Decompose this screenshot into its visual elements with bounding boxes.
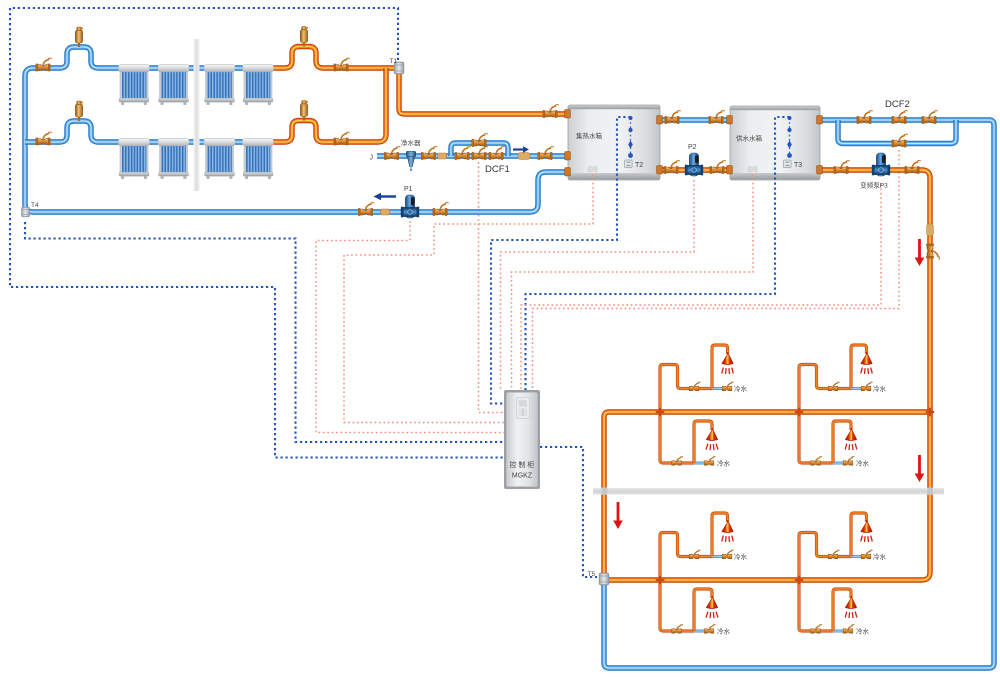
valve DCF2 bypass (892, 134, 908, 147)
valve DCF1 bypass (472, 134, 488, 147)
junction line1 riser (926, 408, 934, 416)
shower unit A2 (799, 345, 887, 412)
pump P1 (401, 195, 419, 218)
wire blue J purifier line (377, 155, 568, 157)
valve J line 1 (384, 147, 400, 160)
port fitting tank2 P3 out (817, 166, 823, 174)
valve DCF1 c (489, 147, 505, 160)
texts inserted here (31, 58, 910, 578)
valve top link b (709, 111, 725, 124)
wire P1 control (316, 221, 504, 433)
purifier 净水器 (406, 151, 415, 171)
svg-text:MGKZ: MGKZ (512, 473, 533, 480)
svg-text:供水水箱: 供水水箱 (736, 134, 763, 143)
pump P2 (685, 153, 703, 176)
valve collector row1 left (36, 58, 52, 71)
valve DCF2 a (857, 111, 873, 124)
capsule P1 line (381, 209, 390, 215)
svg-text:T1: T1 (390, 58, 398, 65)
port fitting tank1 out to P1 (565, 168, 571, 176)
shower unit D1 (660, 580, 731, 636)
flow arrow right (513, 146, 529, 153)
pump P3 变频泵 (872, 153, 890, 176)
wire DCF2 control (533, 150, 900, 390)
valve DCF2 c (922, 111, 938, 124)
wire T3 sensor cable (526, 117, 790, 390)
collector panel row2-3 (204, 139, 235, 179)
junction line1 left (656, 408, 664, 416)
valve P3 line right (905, 161, 921, 174)
shower unit B1 (660, 412, 731, 468)
collector panel row2-2 (158, 139, 189, 179)
wire P3 control (521, 184, 881, 390)
port fitting tank1 bottom link (657, 166, 663, 174)
shower unit C2 (799, 513, 887, 580)
collector panel row1-1 (119, 65, 150, 105)
valve P1 line right (433, 203, 449, 216)
valve collector row2 left (36, 132, 52, 145)
junction line2 right (795, 576, 803, 584)
components inserted here (22, 27, 940, 585)
shower unit B2 (799, 412, 870, 468)
collector panel row2-4 (243, 139, 274, 179)
valve DCF2 b (892, 111, 908, 124)
valve DCF1 b (472, 147, 488, 160)
collector panel row2-1 (119, 139, 150, 179)
wire orange row1 collector out > T1 > down > into tank1 (255, 47, 568, 115)
sensor fitting T4 (22, 207, 30, 217)
wire blue link tank1-tank2 top (660, 119, 730, 121)
junction line2 left (656, 576, 664, 584)
sensor fitting T5 (599, 573, 609, 585)
shower unit C1 (660, 513, 748, 580)
valve collector row2 right (334, 132, 350, 145)
svg-text:集热水箱: 集热水箱 (576, 131, 603, 140)
floor slab bar (593, 488, 944, 494)
wire tank1 element control (344, 174, 593, 423)
svg-text:变频泵P3: 变频泵P3 (860, 181, 888, 190)
tank 供水水箱 (730, 106, 820, 180)
svg-text:P2: P2 (688, 144, 697, 151)
wire orange link tank1-tank2 bottom (660, 169, 730, 171)
wire tank2 element control (512, 174, 754, 390)
tank 集热水箱 (568, 105, 660, 180)
red arrow left riser below slab (613, 502, 623, 529)
port fitting tank1 top link (657, 116, 663, 124)
control cabinet MGKZ (504, 390, 540, 489)
sensor probe T3 in tank2 (784, 116, 792, 168)
valve collector row1 right (334, 58, 350, 71)
svg-text:J: J (370, 155, 374, 162)
wire T4 sensor cable (25, 222, 504, 442)
svg-text:T4: T4 (31, 202, 39, 209)
wire blue row2 supply w/ bump (25, 121, 272, 142)
air vent row2 right (300, 101, 308, 121)
air vent row1 left (75, 27, 83, 47)
wire DCF1 bypass loop (451, 143, 508, 156)
collector panel row1-4 (243, 65, 274, 105)
wire T5 sensor cable (540, 447, 597, 577)
collector panel row1-3 (204, 65, 235, 105)
wire blue DCF2 line > right edge down > bottom > up to T5 (604, 120, 994, 668)
wire P2 control (501, 180, 695, 390)
wire orange line1 > left vertical down to T5 (604, 412, 930, 574)
valve DCF1 a (455, 147, 471, 160)
port fitting tank2 bottom link (727, 166, 733, 174)
svg-text:净水器: 净水器 (401, 138, 421, 147)
port fitting tank1 hot in (565, 110, 571, 118)
shower unit D2 (799, 580, 870, 636)
port fitting tank2 DCF2 out (817, 116, 823, 124)
valve on right riser (926, 244, 939, 260)
valve into tank1 hot (543, 105, 559, 118)
port fitting tank2 top link (727, 116, 733, 124)
svg-text:控 制 柜: 控 制 柜 (510, 460, 535, 469)
valve J line 2 (421, 147, 437, 160)
svg-text:T2: T2 (635, 162, 643, 169)
red arrow right riser top (915, 239, 925, 266)
wire DCF1 control (479, 162, 505, 413)
capsule on right riser (927, 224, 934, 236)
air vent row1 right (300, 27, 308, 47)
valve P3 line left (834, 161, 850, 174)
check valve after DCF1 (518, 153, 530, 160)
svg-text:T5: T5 (588, 571, 596, 578)
svg-text:P1: P1 (404, 186, 413, 193)
svg-text:T3: T3 (794, 162, 802, 169)
flow arrow left P1 (374, 193, 397, 200)
sensor probe T2 in tank1 (625, 116, 633, 168)
air vent row2 left (75, 101, 83, 121)
wire T1 sensor cable (border path) (10, 8, 504, 458)
wire T2 sensor cable (491, 117, 631, 404)
valve before tank1 cold in (538, 147, 554, 160)
valve top link a (665, 111, 681, 124)
port fitting tank1 cold in (565, 152, 571, 160)
svg-text:DCF1: DCF1 (485, 164, 510, 175)
capsule fitting J line (438, 153, 447, 159)
collector divider bar (194, 39, 200, 191)
valve P1 line left (358, 203, 374, 216)
wire blue: tank1 out > P1 line > T4 riser > row1 supply w/ bump (25, 47, 568, 212)
valve bottom link b (710, 161, 726, 174)
svg-text:DCF2: DCF2 (885, 99, 910, 110)
wire DCF2 bypass loop (838, 120, 956, 144)
collector panel row1-2 (158, 65, 189, 105)
valve bottom link a (664, 161, 680, 174)
junction line1 right (795, 408, 803, 416)
red arrow right riser above slab (915, 455, 925, 482)
wire orange row2 collector out > riser to row1 (255, 68, 386, 142)
wire orange P3 line > right riser down > line2 (608, 170, 930, 580)
sensor fitting T1 (394, 62, 404, 74)
shower unit A1 (660, 345, 748, 412)
